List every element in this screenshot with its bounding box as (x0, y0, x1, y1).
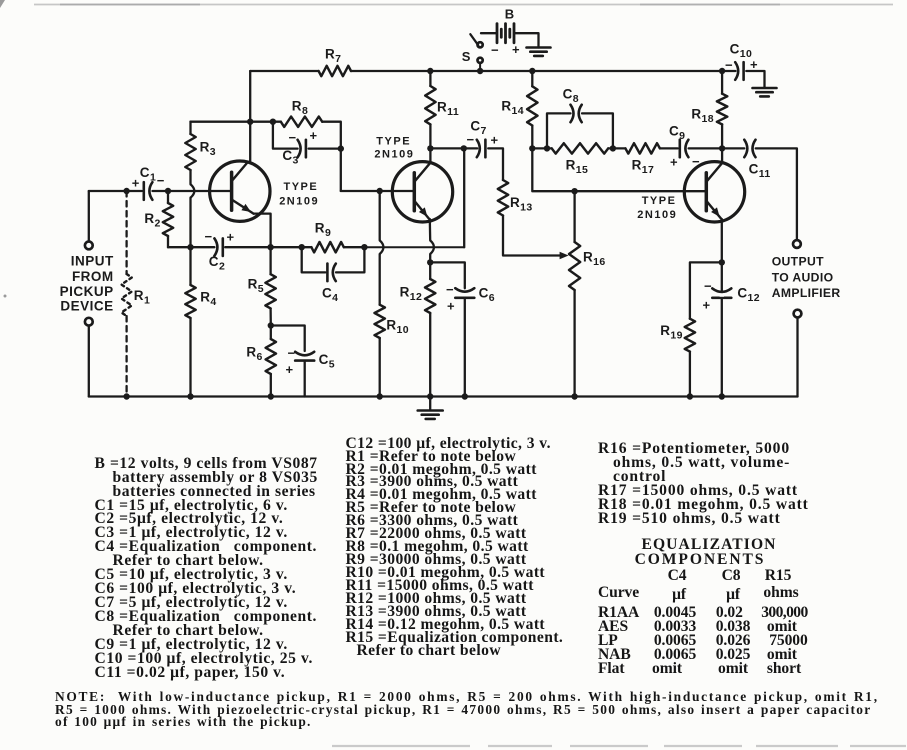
svg-text:R8: R8 (292, 99, 308, 118)
svg-text:C9: C9 (669, 124, 685, 143)
svg-text:R7: R7 (325, 47, 341, 66)
svg-text:−: − (205, 229, 213, 244)
svg-text:−: − (467, 132, 475, 147)
svg-text:R4: R4 (200, 290, 216, 309)
svg-text:R16: R16 (583, 250, 606, 269)
svg-text:C4: C4 (322, 286, 338, 305)
svg-text:+: + (286, 362, 294, 377)
svg-text:OUTPUT: OUTPUT (772, 255, 824, 269)
svg-text:R12: R12 (400, 285, 423, 304)
svg-text:+: + (512, 42, 520, 57)
svg-text:−: − (446, 282, 454, 297)
svg-text:R3: R3 (200, 140, 216, 159)
svg-text:C3: C3 (282, 148, 298, 167)
svg-text:TYPE: TYPE (284, 181, 319, 193)
svg-text:+: + (750, 57, 758, 72)
svg-text:+: + (670, 155, 678, 170)
svg-text:R17: R17 (632, 158, 655, 177)
svg-text:−: − (692, 154, 700, 169)
svg-text:+: + (132, 176, 140, 191)
svg-text:R2: R2 (144, 211, 160, 230)
svg-text:C12: C12 (737, 286, 760, 305)
svg-text:DEVICE: DEVICE (60, 299, 113, 314)
svg-text:B: B (505, 7, 515, 22)
svg-text:−: − (288, 346, 296, 361)
svg-text:R19: R19 (660, 323, 683, 342)
svg-text:R5: R5 (248, 277, 264, 296)
svg-text:S: S (462, 49, 471, 64)
svg-text:PICKUP: PICKUP (60, 284, 114, 299)
svg-text:2N109: 2N109 (374, 149, 414, 161)
svg-text:C1: C1 (140, 165, 156, 184)
svg-text:TYPE: TYPE (376, 135, 411, 147)
svg-text:R14: R14 (501, 99, 524, 118)
svg-text:TO AUDIO: TO AUDIO (772, 270, 834, 284)
svg-text:C8: C8 (563, 87, 579, 106)
svg-text:−: − (157, 173, 165, 188)
svg-text:−: − (289, 130, 297, 145)
svg-text:R1: R1 (134, 288, 150, 307)
svg-text:R6: R6 (246, 345, 262, 364)
svg-text:C6: C6 (479, 286, 495, 305)
svg-text:+: + (227, 230, 235, 245)
svg-text:C11: C11 (749, 162, 771, 181)
svg-text:+: + (447, 299, 455, 314)
svg-text:R13: R13 (510, 195, 533, 214)
svg-text:R10: R10 (386, 318, 409, 337)
svg-text:2N109: 2N109 (637, 209, 677, 221)
svg-text:INPUT: INPUT (71, 254, 114, 269)
svg-text:TYPE: TYPE (642, 195, 677, 207)
svg-text:R18: R18 (691, 107, 714, 126)
svg-text:C10: C10 (730, 42, 753, 61)
svg-text:+: + (310, 128, 318, 143)
svg-text:R9: R9 (315, 221, 331, 240)
svg-text:+: + (703, 298, 711, 313)
svg-text:R15: R15 (566, 158, 589, 177)
svg-text:FROM: FROM (72, 269, 114, 284)
svg-text:+: + (491, 133, 499, 148)
svg-text:−: − (704, 279, 712, 294)
svg-text:−: − (491, 43, 499, 58)
svg-text:AMPLIFIER: AMPLIFIER (772, 286, 841, 300)
svg-text:C5: C5 (319, 352, 335, 371)
svg-text:2N109: 2N109 (279, 195, 319, 207)
svg-text:R11: R11 (437, 100, 459, 119)
svg-text:−: − (725, 58, 733, 73)
